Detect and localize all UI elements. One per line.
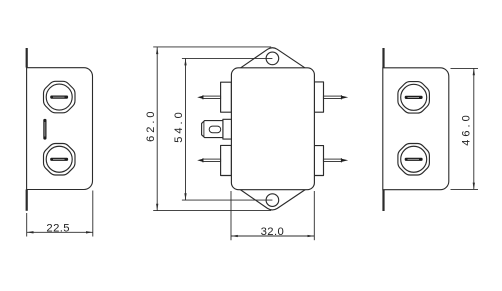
svg-text:62.0: 62.0 (145, 108, 157, 141)
svg-text:22.5: 22.5 (46, 222, 70, 234)
svg-text:46.0: 46.0 (460, 112, 472, 145)
svg-text:32.0: 32.0 (261, 226, 285, 238)
svg-text:54.0: 54.0 (173, 109, 185, 142)
